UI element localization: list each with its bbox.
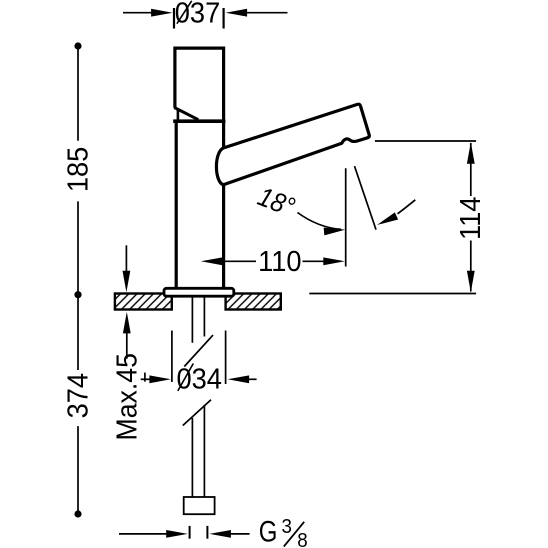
svg-text:18°: 18° — [254, 182, 299, 223]
svg-text:037: 037 — [175, 0, 220, 29]
svg-text:Max.45: Max.45 — [110, 353, 142, 440]
svg-text:185: 185 — [62, 147, 94, 192]
svg-text:G: G — [259, 514, 278, 548]
svg-text:110: 110 — [258, 245, 301, 277]
svg-text:3: 3 — [281, 515, 291, 538]
svg-text:8: 8 — [297, 529, 307, 548]
svg-text:114: 114 — [454, 197, 486, 240]
svg-text:034: 034 — [176, 363, 221, 395]
svg-text:374: 374 — [62, 373, 94, 418]
